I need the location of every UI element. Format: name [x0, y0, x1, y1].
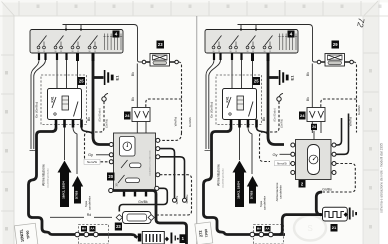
- svg-text:Bk: Bk: [87, 117, 91, 121]
- relay contact 2 inside 20: [118, 175, 140, 183]
- label Bk lower (right panel): [306, 97, 310, 101]
- label E1 (right panel): [290, 75, 295, 81]
- label Bk on ground wire (left panel): [87, 117, 91, 121]
- label square 2: [299, 180, 306, 188]
- timer unit 2 box: [296, 140, 332, 180]
- label (Gn/Rd) (right panel): [280, 119, 284, 128]
- label square 23 (left panel): [157, 41, 165, 49]
- component 29 body (right panel): [325, 54, 345, 67]
- wire timer top: [313, 131, 315, 140]
- glow plugs bank 1: [142, 232, 164, 244]
- svg-text:schema e ubicazione dei relè -: schema e ubicazione dei relè - modelli d…: [380, 143, 384, 213]
- label square 20: [107, 173, 115, 181]
- label (Gn/Gialo) (left panel): [98, 108, 102, 121]
- svg-text:Gn/Bu: Gn/Bu: [185, 194, 189, 203]
- svg-text:MA: MA: [82, 227, 86, 231]
- control unit 20 box: [114, 133, 156, 191]
- wire dashed lower right: [156, 175, 192, 215]
- label Gn/Wh (right panel): [357, 105, 361, 115]
- wire Gn/Bk: [119, 188, 167, 211]
- label text inside 20: [149, 149, 152, 175]
- wire Bk bus to component (left panel): [137, 58, 142, 108]
- svg-text:E1: E1: [290, 75, 295, 81]
- timer module inside 20: [120, 137, 136, 157]
- wire pin to arrow 2 (right panel): [248, 128, 252, 175]
- svg-text:Alimentazione: Alimentazione: [42, 164, 46, 186]
- connector pins (right panel): [250, 232, 273, 237]
- wire dashed branch to switch (right panel): [321, 99, 357, 108]
- label AA (left panel): [90, 226, 96, 232]
- svg-text:Gy: Gy: [272, 152, 277, 157]
- arrow 2/7/E6 (left panel): [72, 176, 83, 204]
- svg-text:24: 24: [125, 113, 130, 118]
- wire to glow plugs: [110, 235, 138, 238]
- svg-text:2/7/E6: 2/7/E6: [250, 190, 254, 199]
- svg-text:Nero/Si: Nero/Si: [277, 162, 287, 166]
- arrow 2/7/E6 (right panel): [247, 176, 258, 204]
- svg-text:Gn/Bu: Gn/Bu: [322, 187, 332, 191]
- wire Wh/Rd to control unit: [160, 133, 182, 141]
- thick bus wire up to element feed: [280, 215, 287, 235]
- label Gn (Gn/Bu) (left panel): [35, 102, 39, 118]
- label square 23 bottom: [115, 223, 122, 231]
- wire timer to upper net 1: [336, 118, 342, 145]
- label square 25 (right panel): [253, 77, 261, 85]
- svg-text:21: 21: [332, 225, 337, 230]
- ground E1 (right panel): [279, 70, 289, 85]
- thick supply wire (left panel): [29, 128, 111, 235]
- glow plug output pin: [165, 237, 169, 242]
- svg-text:30: 30: [115, 183, 119, 187]
- label AA (right panel): [265, 226, 271, 232]
- svg-text:23: 23: [116, 224, 121, 229]
- label Rd: [87, 213, 92, 217]
- svg-text:4: 4: [290, 32, 293, 37]
- handwritten page number 72: [355, 17, 367, 28]
- label MA (left panel): [81, 226, 87, 232]
- svg-text:25: 25: [254, 79, 259, 84]
- wire Nero/Si right panel dashed: [289, 163, 292, 165]
- label Gn/Bu: [185, 194, 189, 203]
- svg-text:72: 72: [355, 17, 367, 28]
- svg-text:candelette: candelette: [279, 185, 283, 199]
- svg-text:K41: K41: [51, 96, 55, 102]
- label Spia candelette (left panel): [84, 196, 92, 211]
- wire Wh/Rd dashed (right panel): [353, 62, 356, 133]
- connector pins (left panel): [75, 232, 98, 237]
- connector dashed box (right panel): [254, 225, 284, 244]
- thick wire to glow plug element: [316, 192, 322, 215]
- wire pin to arrow 2 (left panel): [73, 128, 77, 175]
- svg-text:29: 29: [333, 42, 338, 47]
- component 23 body (left panel): [150, 54, 170, 67]
- wire pin to arrow 1 (left panel): [64, 128, 66, 161]
- svg-text:Gn (Gn/Bu): Gn (Gn/Bu): [35, 102, 39, 118]
- svg-text:Gn/Bk: Gn/Bk: [138, 200, 148, 204]
- control unit 20 left pins: [109, 143, 114, 193]
- wire dashed branch to switch (left panel): [146, 99, 182, 108]
- svg-text:25: 25: [79, 79, 84, 84]
- fuse box pin ladder (left panel): [103, 34, 122, 51]
- label square 24 (right panel): [299, 112, 306, 120]
- wire Nero/Si dashed: [101, 161, 110, 163]
- relay K41 (left panel): [48, 89, 82, 120]
- label Nero/Si right panel: [275, 161, 290, 166]
- label Gn/Ye: [175, 195, 179, 204]
- battery symbol: [171, 233, 179, 244]
- label Wh/Rd (right panel): [349, 117, 353, 127]
- svg-text:19/K2, 19/D4: 19/K2, 19/D4: [237, 181, 241, 199]
- svg-text:Bk: Bk: [131, 97, 135, 101]
- wires switch 24 down (right panel): [312, 122, 321, 134]
- svg-text:candelette preriscald.: candelette preriscald.: [222, 168, 225, 188]
- supply bus wire over fuse box (left panel): [63, 25, 138, 59]
- single pin connector (right panel): [277, 93, 283, 101]
- connector dashed box (left panel): [79, 225, 109, 244]
- ignition switch / fuse box 4 (right panel): [205, 30, 298, 54]
- fuse box output pins (left panel): [38, 53, 95, 61]
- svg-text:(Gn/Rd): (Gn/Rd): [105, 119, 109, 128]
- svg-text:Wh/Rd: Wh/Rd: [174, 117, 178, 127]
- glow plug feed pin: [138, 234, 142, 242]
- label Alimentazione (right panel): [217, 164, 221, 186]
- svg-text:Gn/Ye: Gn/Ye: [175, 195, 179, 204]
- svg-text:19/K2, 19/D4: 19/K2, 19/D4: [62, 181, 66, 199]
- label square 4 (left panel): [113, 31, 120, 38]
- label K41 (left panel): [51, 96, 55, 102]
- label square 24 above timer: [311, 124, 317, 130]
- wires switch 24 down (left panel): [137, 122, 146, 134]
- svg-text:Gn/Wh: Gn/Wh: [188, 117, 192, 127]
- label square 29 (right panel): [332, 41, 340, 49]
- svg-text:Gn/Wh: Gn/Wh: [357, 105, 361, 115]
- wire Gy: [96, 154, 109, 156]
- wire Bk thick to ground and control unit (right panel): [268, 61, 284, 145]
- label Gy: [88, 152, 93, 157]
- supply bus wire over fuse box (right panel): [238, 25, 313, 59]
- wires fuse box to relay (left panel): [57, 60, 78, 89]
- svg-text:20: 20: [108, 174, 113, 179]
- fuse box switch contacts (left panel): [37, 36, 97, 54]
- svg-text:candelette: candelette: [263, 196, 267, 211]
- relay K41 (right panel): [223, 89, 257, 120]
- svg-text:Rd: Rd: [87, 213, 92, 217]
- svg-text:K41: K41: [226, 96, 230, 102]
- svg-text:24: 24: [312, 125, 316, 129]
- inline connector body: [123, 212, 152, 224]
- panel divider line: [196, 16, 198, 244]
- battery symbol right panel: [349, 208, 357, 220]
- svg-text:Bk: Bk: [131, 72, 135, 76]
- relay holder dashed box 25 (left panel): [41, 75, 87, 125]
- label Nero/Si: [84, 159, 100, 164]
- svg-text:E1: E1: [115, 75, 120, 81]
- wire Gn pair to left (left panel): [30, 60, 46, 151]
- relay holder dashed box 25 (right panel): [216, 75, 262, 125]
- label Alimentazione (left panel): [42, 164, 46, 186]
- twin switch 24 body (right panel): [307, 108, 325, 122]
- svg-text:4: 4: [115, 32, 118, 37]
- label (Gn/Rd) (left panel): [105, 119, 109, 128]
- label Wh/Rd (left panel): [174, 117, 178, 127]
- fuse box pin ladder (right panel): [278, 34, 297, 51]
- glow plug element box: [323, 207, 348, 221]
- label Bk upper (right panel): [306, 72, 310, 76]
- wire stub to ground E1 (left panel): [93, 76, 104, 79]
- svg-text:Alimentazione: Alimentazione: [217, 164, 221, 186]
- label alimentazione small (right panel): [222, 168, 225, 188]
- label Bk on ground wire (right panel): [262, 117, 266, 121]
- wire stub to ground E1 (right panel): [268, 76, 279, 79]
- svg-text:(Gn/Gialo): (Gn/Gialo): [98, 108, 102, 121]
- wires fuse box to relay (right panel): [232, 60, 253, 89]
- timer unit 2 right pins: [332, 143, 336, 175]
- control unit 20 right pins: [155, 138, 160, 190]
- wire Gn/Ye: [160, 149, 177, 203]
- inline connector right pin: [148, 215, 154, 221]
- svg-text:(Gn/Gialo): (Gn/Gialo): [273, 108, 277, 121]
- label Spia candelette (right panel): [259, 196, 267, 211]
- inline connector left pin: [116, 215, 122, 221]
- svg-text:Candelette preriscaldamento: Candelette preriscaldamento: [149, 149, 152, 175]
- label (Gn/Gialo) (right panel): [273, 108, 277, 121]
- wire timer dashed to Gn/Bu: [322, 164, 355, 193]
- element terminal dot: [319, 213, 322, 216]
- watermark circle: [294, 216, 326, 241]
- svg-text:24: 24: [300, 113, 305, 118]
- ground E1 (left panel): [104, 70, 114, 85]
- label K41 (right panel): [226, 96, 230, 102]
- arrow 19/K2 19/D4 (left panel): [58, 161, 72, 208]
- svg-text:Gn (Gn/Bu): Gn (Gn/Bu): [210, 102, 214, 118]
- wire timer to upper net 2: [336, 114, 349, 155]
- reference label box 10N/2 TP90: [14, 223, 37, 244]
- label square 25 (left panel): [78, 77, 86, 85]
- wire Bk thick to ground and control unit (left panel): [93, 61, 109, 145]
- caption: schema e ubicazione dei relays - modelli dal 1995: [380, 143, 384, 213]
- svg-text:(Gn/Rd): (Gn/Rd): [280, 119, 284, 128]
- svg-text:Gy: Gy: [88, 152, 93, 157]
- timer unit 2 left pins: [291, 143, 295, 175]
- wire pin to ground net (right panel): [257, 128, 269, 137]
- label Gn/Bu right panel: [322, 187, 332, 191]
- svg-text:candelette: candelette: [88, 196, 92, 211]
- component 29 terminals (right panel): [317, 60, 353, 64]
- wire pin to ground net (left panel): [82, 128, 94, 137]
- control unit 20 bottom pins: [123, 191, 147, 197]
- svg-text:Bk: Bk: [306, 72, 310, 76]
- svg-text:S: S: [307, 224, 312, 233]
- label Bk upper (left panel): [131, 72, 135, 76]
- wire pin to arrow 1 (right panel): [239, 128, 241, 161]
- label square battery: [180, 234, 187, 243]
- label Gy right panel: [272, 152, 277, 157]
- component 23 terminals (left panel): [142, 60, 178, 64]
- svg-text:candelette preriscald.: candelette preriscald.: [47, 168, 50, 188]
- label Gn (Gn/Bu) (right panel): [210, 102, 214, 118]
- label Gn/Bk: [138, 200, 148, 204]
- wire Gn-Gialo dashed (left panel): [85, 102, 105, 162]
- wire Bk bus to component (right panel): [312, 58, 317, 108]
- label square 21: [331, 224, 338, 232]
- wire Wh/Rd dashed (left panel): [178, 62, 181, 133]
- svg-text:23: 23: [158, 42, 163, 47]
- reference label box 272 TP90: [195, 222, 213, 244]
- wire Gn-Gialo dashed (right panel): [260, 102, 280, 162]
- label alimentazione small (left panel): [47, 168, 50, 188]
- fuse box switch contacts (right panel): [212, 36, 272, 54]
- fuse box output pins (right panel): [213, 53, 270, 61]
- thick supply wire (right panel): [204, 128, 286, 235]
- twin switch 24 body (left panel): [132, 108, 150, 122]
- relay contact 1 inside 20: [121, 160, 141, 168]
- svg-text:AA: AA: [91, 227, 95, 231]
- wire bus up to element: [286, 213, 320, 216]
- ignition switch / fuse box 4 (left panel): [30, 30, 123, 54]
- svg-text:MA: MA: [257, 227, 261, 231]
- relay pins (left panel): [55, 120, 83, 128]
- label E1 (left panel): [115, 75, 120, 81]
- svg-text:AA: AA: [266, 227, 270, 231]
- relay pins (right panel): [230, 120, 258, 128]
- arrow 19/K2 19/D4 (right panel): [233, 161, 247, 208]
- label square 24 (left panel): [124, 112, 131, 120]
- wire Gn pair to left (right panel): [205, 60, 221, 151]
- label Bk lower (left panel): [131, 97, 135, 101]
- svg-text:Bk: Bk: [306, 97, 310, 101]
- single pin connector (left panel): [102, 93, 108, 101]
- element output pin: [344, 212, 348, 217]
- label 30 inside box: [115, 183, 119, 187]
- timer capsule inside 2: [308, 145, 320, 175]
- svg-text:Bk: Bk: [262, 117, 266, 121]
- wire Gn/Bu: [160, 157, 187, 203]
- label square 4 (right panel): [288, 31, 295, 38]
- label Gn/Wh (left panel): [188, 117, 192, 127]
- label Alimentazione candelette: [275, 182, 283, 201]
- label MA (right panel): [256, 226, 262, 232]
- thick wire control unit to bottom: [113, 191, 187, 244]
- svg-text:2/7/E6: 2/7/E6: [75, 190, 79, 199]
- wire Gy right panel: [280, 153, 291, 155]
- svg-text:Nero/Si: Nero/Si: [87, 160, 97, 164]
- wire Rd: [50, 216, 112, 218]
